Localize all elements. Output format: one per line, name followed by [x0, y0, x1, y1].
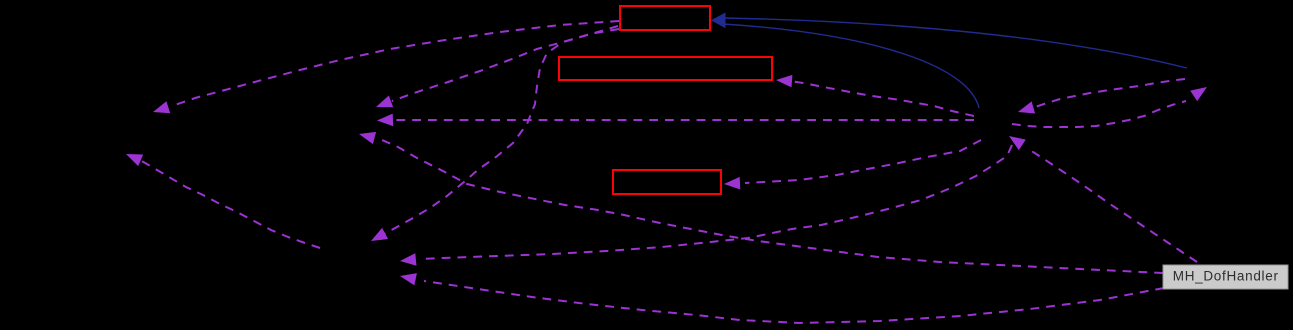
edge hub -> box B — [776, 75, 974, 116]
edge hub -> node M2 (upper) — [400, 145, 1012, 266]
edge node A -> node L1 — [153, 21, 619, 113]
edge node A -> node M1 (upper) — [376, 26, 618, 107]
edge MH_DofHandler -> node M1 (lower) — [359, 132, 1163, 273]
edge node A -> node M2 — [371, 29, 619, 241]
edge hub -> node R — [1012, 87, 1207, 127]
node MH_DofHandler (current class, gray box) — [1163, 265, 1288, 289]
edge node M2 -> node L2 — [126, 154, 320, 248]
blue edge node R -> box A (solid inheritance) — [724, 18, 1187, 68]
box B (red outlined node, wide) — [559, 57, 772, 80]
edge MH_DofHandler -> hub — [1009, 136, 1197, 262]
edge node R -> hub — [1018, 79, 1185, 114]
edge hub -> node M1 (horizontal) — [377, 114, 974, 127]
blue arrowhead at box A — [711, 13, 726, 29]
blue edge hub -> box A (solid inheritance) — [723, 24, 979, 108]
svg-text:MH_DofHandler: MH_DofHandler — [1173, 269, 1279, 284]
box A (red outlined node, top) — [620, 6, 710, 30]
box C (red outlined node, middle) — [613, 170, 721, 194]
edge hub -> box C — [724, 140, 981, 190]
edge MH_DofHandler -> node M2 (bottom curve) — [400, 273, 1164, 323]
